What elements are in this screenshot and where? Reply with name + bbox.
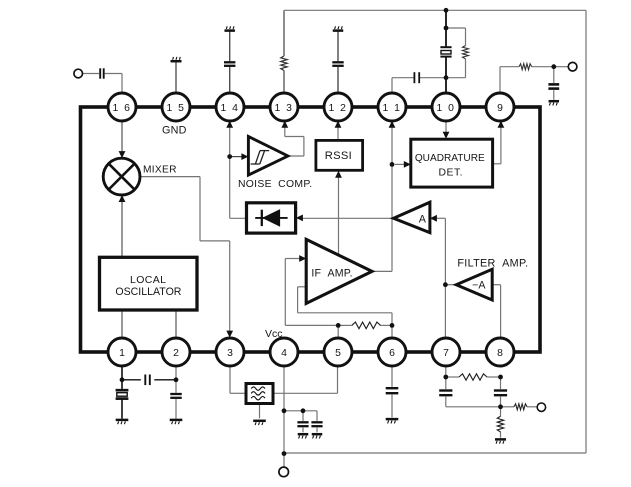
svg-text:5: 5 xyxy=(335,348,341,359)
svg-text:GND: GND xyxy=(162,124,187,136)
svg-text:RSSI: RSSI xyxy=(325,150,352,162)
svg-text:1: 1 xyxy=(119,348,125,359)
svg-text:4: 4 xyxy=(281,348,287,359)
svg-text:MIXER: MIXER xyxy=(143,165,177,176)
svg-text:6: 6 xyxy=(389,348,395,359)
svg-text:1 5: 1 5 xyxy=(167,103,186,114)
svg-text:NOISE COMP.: NOISE COMP. xyxy=(238,179,312,190)
svg-text:A: A xyxy=(419,213,427,225)
svg-text:2: 2 xyxy=(173,348,179,359)
svg-text:FILTER AMP.: FILTER AMP. xyxy=(457,257,528,269)
svg-text:1 3: 1 3 xyxy=(275,103,294,114)
svg-text:1 2: 1 2 xyxy=(329,103,348,114)
svg-text:3: 3 xyxy=(227,348,233,359)
svg-text:1 1: 1 1 xyxy=(383,103,402,114)
svg-text:QUADRATURE: QUADRATURE xyxy=(415,153,485,164)
svg-text:1 6: 1 6 xyxy=(113,103,132,114)
svg-text:DET.: DET. xyxy=(439,168,464,179)
svg-text:OSCILLATOR: OSCILLATOR xyxy=(115,286,181,298)
svg-text:Vcc: Vcc xyxy=(265,328,283,340)
svg-text:9: 9 xyxy=(497,103,503,114)
svg-text:8: 8 xyxy=(497,348,503,359)
svg-text:7: 7 xyxy=(443,348,449,359)
svg-text:−A: −A xyxy=(472,280,486,292)
svg-text:1 4: 1 4 xyxy=(221,103,240,114)
svg-text:IF AMP.: IF AMP. xyxy=(311,267,352,279)
svg-text:1 0: 1 0 xyxy=(437,103,456,114)
svg-text:LOCAL: LOCAL xyxy=(130,274,166,286)
